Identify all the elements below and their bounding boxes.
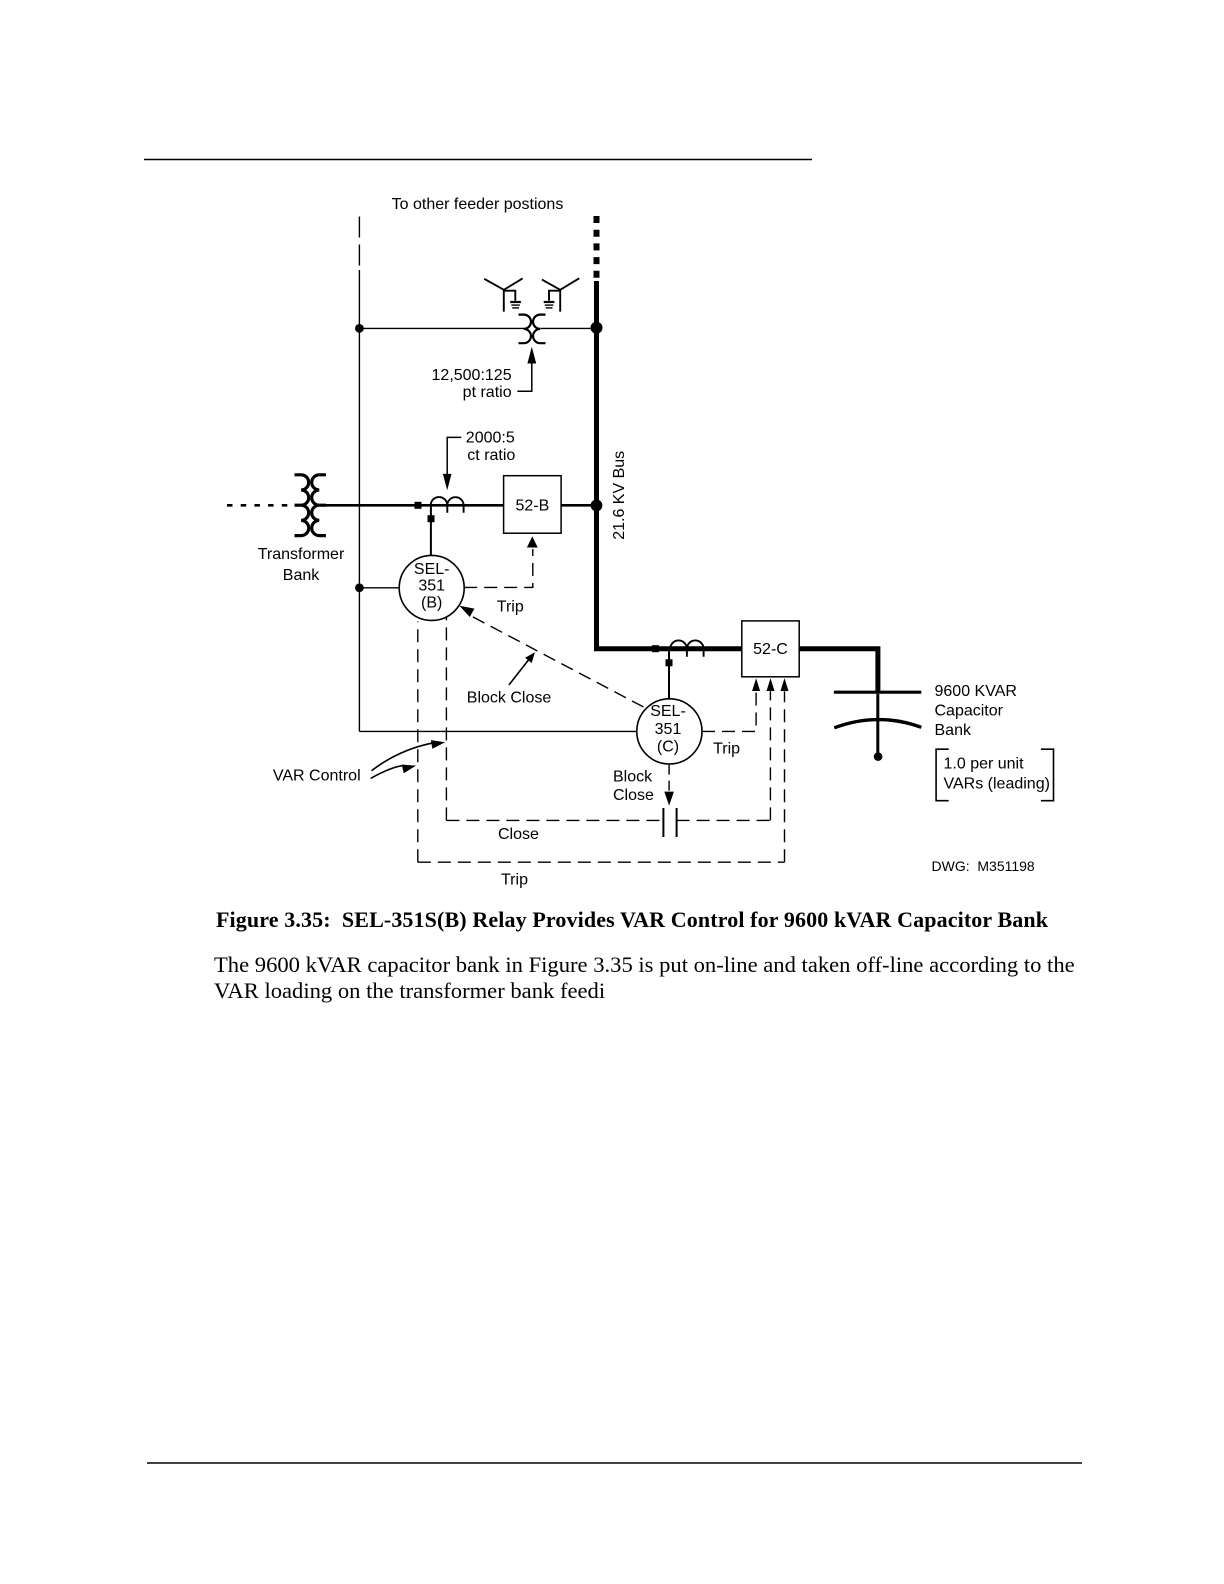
- leader curve lower (VAR control to trip wire): [371, 765, 405, 778]
- contact: 52a contact in close circuit (right bar): [676, 808, 678, 837]
- svg-text:2000:5: 2000:5: [466, 430, 515, 447]
- svg-text:(B): (B): [421, 595, 442, 612]
- wire: CT secondary lead to SEL-351(C): [668, 650, 670, 699]
- wire: dashed close horizontal run (right of contact): [677, 819, 771, 821]
- wire: feeder from transformer to 52-B: [322, 504, 504, 507]
- svg-text:21.6 KV Bus: 21.6 KV Bus: [611, 451, 628, 540]
- wire: dashed close output of SEL-351(B) down: [445, 618, 447, 821]
- svg-text:52-C: 52-C: [753, 641, 788, 658]
- arrowhead: ct ratio points down at CT: [443, 474, 452, 490]
- svg-text:Close: Close: [613, 787, 654, 804]
- wire: dashed trip output of SEL-351(B) down: [417, 622, 419, 863]
- svg-text:9600 KVAR: 9600 KVAR: [935, 683, 1017, 700]
- node: square on CT secondary lead (C): [666, 659, 673, 666]
- wire: dashed trip from SEL-351(C): [702, 692, 756, 731]
- arrowhead: trip into 52-C: [781, 678, 789, 691]
- wire: feeder from 52-B to bus: [561, 504, 596, 507]
- transformer PT right winding: [533, 315, 545, 344]
- svg-text:Bank: Bank: [283, 567, 320, 584]
- wire: thick feeder from 52-C to capacitor bank: [799, 649, 878, 692]
- node: junction dot on bus at PT line: [591, 322, 603, 334]
- wire: left vertical PT/relay feed: [358, 270, 360, 731]
- breaker 52-C box: [742, 621, 799, 677]
- arrowhead: VAR control lower: [402, 765, 416, 774]
- svg-text:Trip: Trip: [501, 872, 528, 889]
- arrowhead: block close leader: [525, 652, 535, 663]
- arrowhead: block close down onto contact: [664, 792, 674, 806]
- wire: capacitor stem: [876, 694, 879, 753]
- arrowhead: trip C into 52-C: [752, 678, 760, 691]
- svg-text:Bank: Bank: [935, 722, 972, 739]
- leader curve upper (VAR control to close wire): [372, 743, 434, 771]
- wire: dashed feeder continuation (left, top): [358, 217, 360, 271]
- relay SEL-351(B) circle: [399, 555, 464, 620]
- header rule: [144, 159, 812, 161]
- node: square tap on feeder: [415, 502, 422, 509]
- leader arrow for Block Close label: [509, 659, 529, 685]
- node: capacitor bottom dot: [874, 752, 883, 761]
- wire: dashed block close diagonal from SEL-351(C) to SEL-351(B): [473, 617, 647, 709]
- wire: dashed trip riser to 52-C: [784, 691, 786, 862]
- node: junction dot on left vertical at SEL-351(B): [355, 583, 364, 592]
- svg-text:VARs (leading): VARs (leading): [944, 776, 1050, 793]
- node: square on CT secondary lead: [428, 515, 435, 522]
- wire: CT secondary lead to SEL-351(B): [430, 506, 432, 555]
- svg-text:pt ratio: pt ratio: [463, 384, 512, 401]
- paragraph: [214, 952, 1075, 1005]
- wire: dashed stub left of transformer bank: [227, 504, 294, 507]
- wire: PT primary line left segment: [359, 327, 524, 329]
- svg-text:(C): (C): [657, 739, 679, 756]
- node: junction dot bus/feeder: [591, 500, 603, 512]
- capacitor bank top plate: [834, 691, 921, 694]
- svg-text:VAR Control: VAR Control: [273, 767, 361, 784]
- caption: [216, 907, 1048, 933]
- svg-text:ct ratio: ct ratio: [467, 447, 515, 464]
- node: junction dot left on PT line: [355, 324, 364, 333]
- svg-text:Block Close: Block Close: [467, 690, 552, 707]
- breaker 52-B box: [504, 476, 561, 534]
- wire: voltage lead to SEL-351(B): [359, 587, 399, 589]
- svg-text:Block: Block: [613, 769, 653, 786]
- wye-ground symbol (right): [542, 278, 579, 311]
- svg-text:Close: Close: [498, 826, 539, 843]
- arrowhead: close into 52-C: [767, 678, 775, 691]
- wire: 21.6 KV bus (thick) with elbow to 52-C: [597, 281, 742, 649]
- svg-text:351: 351: [655, 721, 682, 738]
- capacitor bank curved plate: [834, 720, 921, 728]
- node: square tap on 52-C feeder: [652, 645, 659, 652]
- wire: dashed close horizontal run (left of contact): [446, 819, 663, 821]
- svg-text:351: 351: [418, 578, 445, 595]
- arrowhead: block close into SEL-351(B): [459, 606, 474, 617]
- footer rule: [147, 1462, 1082, 1464]
- relay SEL-351(C) circle: [637, 699, 702, 764]
- transformer bank left winding: [295, 475, 309, 536]
- leader line for ct ratio: [447, 437, 461, 474]
- CT on feeder (2000:5): [431, 497, 464, 505]
- svg-text:Transformer: Transformer: [258, 546, 345, 563]
- svg-text:SEL-: SEL-: [650, 703, 686, 720]
- wire: dashed trip from SEL-351(B) to 52-B: [464, 549, 533, 587]
- wire: dashed trip horizontal run: [418, 861, 785, 863]
- leader line for pt ratio: [517, 363, 532, 391]
- bracket left for VARs note: [936, 749, 949, 801]
- wire: PT primary line right segment: [540, 327, 596, 329]
- svg-text:52-B: 52-B: [516, 498, 550, 515]
- arrowhead: VAR control upper: [431, 740, 445, 749]
- svg-text:Trip: Trip: [713, 741, 740, 758]
- svg-text:SEL-: SEL-: [414, 561, 450, 578]
- svg-text:12,500:125: 12,500:125: [432, 367, 512, 384]
- wire: dotted bus continuation (right, top): [594, 216, 600, 278]
- svg-text:DWG: M351198: DWG: M351198: [932, 858, 1035, 874]
- transformer PT left winding: [519, 315, 531, 344]
- arrowhead: trip into 52-B: [527, 536, 538, 547]
- wire: dashed block close from SEL-351(C) bottom: [668, 765, 670, 791]
- transformer bank right winding: [312, 475, 326, 536]
- svg-text:Capacitor: Capacitor: [935, 703, 1004, 720]
- arrowhead: pt ratio points up at PT: [527, 347, 536, 364]
- svg-text:To other feeder postions: To other feeder postions: [392, 196, 564, 213]
- wire: dashed close riser to 52-C: [769, 691, 771, 820]
- contact: 52a contact in close circuit (left bar): [662, 808, 664, 837]
- bracket right for VARs note: [1041, 749, 1054, 801]
- svg-text:1.0 per unit: 1.0 per unit: [944, 756, 1025, 773]
- wye-ground symbol (left): [484, 278, 522, 311]
- svg-text:Trip: Trip: [497, 599, 524, 616]
- wire: horizontal run to SEL-351(C): [359, 730, 636, 732]
- CT on 52-C feeder: [670, 640, 703, 648]
